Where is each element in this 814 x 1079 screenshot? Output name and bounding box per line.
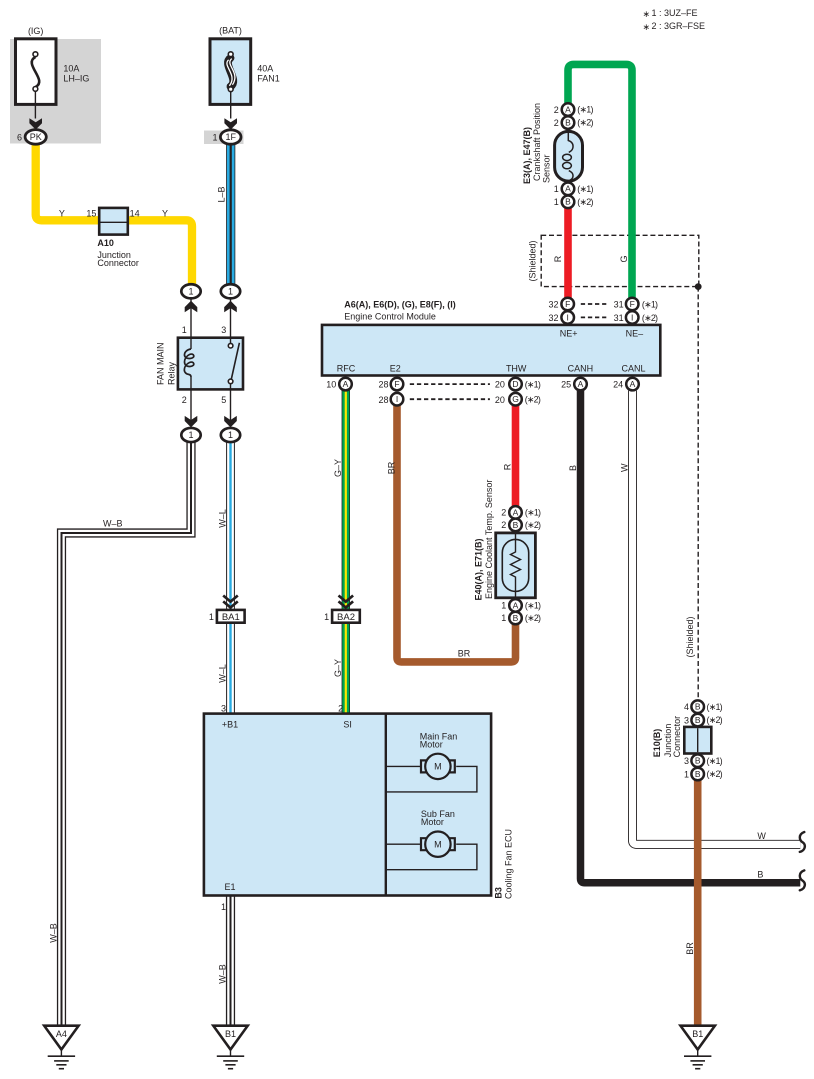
svg-text:F: F (565, 299, 570, 309)
svg-text:B: B (695, 702, 701, 712)
svg-text:(∗2): (∗2) (577, 118, 593, 128)
svg-text:W–L: W–L (217, 664, 227, 683)
svg-text:LH–IG: LH–IG (63, 73, 89, 83)
svg-text:1: 1 (212, 132, 217, 142)
svg-text:(∗2): (∗2) (525, 613, 541, 623)
svg-text:E3(A), E47(B): E3(A), E47(B) (522, 127, 532, 184)
svg-text:I: I (631, 312, 633, 322)
svg-text:W: W (757, 831, 766, 841)
svg-text:Motor: Motor (421, 817, 444, 827)
svg-text:(∗1): (∗1) (577, 184, 593, 194)
svg-text:B: B (565, 118, 571, 128)
svg-text:W: W (620, 463, 630, 472)
svg-text:G: G (619, 255, 629, 262)
svg-text:E40(A), E71(B): E40(A), E71(B) (474, 538, 484, 600)
svg-text:B1: B1 (692, 1029, 703, 1039)
svg-text:W–B: W–B (49, 923, 59, 943)
svg-text:FAN1: FAN1 (257, 73, 280, 83)
svg-text:B1: B1 (225, 1029, 236, 1039)
svg-text:Y: Y (162, 209, 168, 219)
svg-text:31: 31 (614, 313, 624, 323)
svg-text:5: 5 (221, 395, 226, 405)
svg-text:BR: BR (685, 942, 695, 955)
svg-text:B: B (695, 769, 701, 779)
svg-text:A: A (513, 600, 519, 610)
svg-text:Motor: Motor (420, 739, 443, 749)
svg-text:A6(A), E6(D), (G), E8(F), (I): A6(A), E6(D), (G), E8(F), (I) (344, 300, 456, 310)
svg-text:1: 1 (209, 612, 214, 622)
svg-text:L–B: L–B (217, 186, 227, 202)
svg-text:BA2: BA2 (337, 612, 355, 623)
svg-text:∗: ∗ (643, 22, 651, 32)
svg-text:A: A (343, 379, 349, 389)
svg-text:10: 10 (326, 380, 336, 390)
svg-text:2 : 3GR–FSE: 2 : 3GR–FSE (652, 21, 706, 31)
svg-text:(∗2): (∗2) (707, 769, 723, 779)
svg-text:20: 20 (495, 395, 505, 405)
svg-text:Sensor: Sensor (541, 154, 551, 183)
svg-text:(Shielded): (Shielded) (528, 240, 538, 281)
svg-text:A: A (630, 379, 636, 389)
svg-text:15: 15 (86, 208, 96, 218)
svg-text:(∗2): (∗2) (577, 197, 593, 207)
svg-text:1: 1 (188, 430, 193, 440)
svg-text:32: 32 (548, 313, 558, 323)
svg-text:R: R (553, 255, 563, 262)
svg-text:E2: E2 (390, 364, 401, 374)
svg-text:RFC: RFC (337, 364, 356, 374)
svg-text:SI: SI (343, 720, 352, 730)
svg-text:BR: BR (387, 461, 397, 474)
svg-text:THW: THW (506, 364, 527, 374)
svg-text:A: A (513, 507, 519, 517)
svg-text:BR: BR (458, 648, 471, 658)
svg-text:1: 1 (554, 197, 559, 207)
svg-text:1 : 3UZ–FE: 1 : 3UZ–FE (652, 8, 698, 18)
svg-text:B: B (568, 465, 578, 471)
svg-text:32: 32 (548, 300, 558, 310)
svg-text:(∗2): (∗2) (525, 395, 541, 405)
svg-text:F: F (630, 299, 635, 309)
svg-text:BA1: BA1 (222, 612, 240, 623)
svg-text:Crankshaft Position: Crankshaft Position (532, 103, 542, 181)
svg-text:W–L: W–L (217, 509, 227, 528)
svg-text:Cooling Fan ECU: Cooling Fan ECU (504, 829, 514, 899)
svg-text:(∗1): (∗1) (707, 702, 723, 712)
svg-text:31: 31 (614, 300, 624, 310)
svg-text:+B1: +B1 (222, 720, 238, 730)
svg-text:(∗2): (∗2) (525, 520, 541, 530)
svg-text:W–B: W–B (103, 519, 123, 529)
svg-text:Connector: Connector (672, 716, 682, 758)
svg-text:25: 25 (561, 380, 571, 390)
svg-text:6: 6 (17, 132, 22, 142)
svg-text:10A: 10A (63, 64, 79, 74)
svg-text:14: 14 (130, 208, 140, 218)
svg-text:∗: ∗ (643, 9, 651, 19)
svg-text:Y: Y (59, 209, 65, 219)
svg-text:(∗1): (∗1) (707, 756, 723, 766)
svg-text:NE+: NE+ (560, 329, 578, 339)
svg-text:2: 2 (501, 520, 506, 530)
svg-text:24: 24 (613, 380, 623, 390)
svg-text:40A: 40A (257, 64, 273, 74)
svg-text:R: R (503, 463, 513, 470)
svg-text:2: 2 (554, 118, 559, 128)
svg-text:B3: B3 (493, 887, 503, 899)
svg-text:(∗2): (∗2) (707, 715, 723, 725)
svg-text:I: I (567, 312, 569, 322)
svg-text:G: G (512, 394, 519, 404)
svg-text:3: 3 (221, 703, 226, 713)
svg-text:Engine Coolant Temp. Sensor: Engine Coolant Temp. Sensor (484, 480, 494, 599)
svg-text:B: B (695, 715, 701, 725)
svg-text:(∗1): (∗1) (577, 105, 593, 115)
svg-text:(∗1): (∗1) (642, 299, 658, 309)
svg-text:CANH: CANH (568, 364, 594, 374)
svg-text:3: 3 (684, 756, 689, 766)
svg-text:M: M (434, 762, 442, 772)
svg-text:Relay: Relay (167, 361, 177, 385)
svg-text:E10(B): E10(B) (652, 729, 662, 758)
svg-text:I: I (396, 394, 398, 404)
svg-text:1: 1 (228, 287, 233, 297)
svg-text:B: B (757, 869, 763, 879)
svg-text:A4: A4 (56, 1029, 67, 1039)
svg-text:3: 3 (684, 715, 689, 725)
svg-text:(∗1): (∗1) (525, 380, 541, 390)
svg-text:(Shielded): (Shielded) (685, 616, 695, 657)
svg-text:3: 3 (221, 325, 226, 335)
svg-text:B: B (565, 197, 571, 207)
svg-text:2: 2 (501, 508, 506, 518)
svg-text:(BAT): (BAT) (219, 26, 242, 36)
svg-text:W–B: W–B (218, 964, 228, 984)
svg-text:1: 1 (684, 769, 689, 779)
svg-text:A: A (565, 105, 571, 115)
svg-text:G–Y: G–Y (333, 459, 343, 477)
svg-text:1: 1 (501, 613, 506, 623)
svg-text:E1: E1 (225, 882, 236, 892)
svg-text:Connector: Connector (97, 258, 139, 268)
svg-text:PK: PK (30, 132, 42, 142)
svg-text:A: A (565, 184, 571, 194)
svg-text:(∗1): (∗1) (525, 600, 541, 610)
svg-text:2: 2 (182, 395, 187, 405)
svg-text:(IG): (IG) (28, 26, 44, 36)
svg-text:(∗2): (∗2) (642, 313, 658, 323)
svg-text:(∗1): (∗1) (525, 507, 541, 517)
svg-text:NE–: NE– (626, 329, 644, 339)
svg-text:20: 20 (495, 380, 505, 390)
svg-text:1: 1 (188, 287, 193, 297)
svg-text:1: 1 (324, 612, 329, 622)
svg-text:D: D (512, 379, 518, 389)
svg-text:B: B (695, 756, 701, 766)
svg-text:4: 4 (684, 702, 689, 712)
svg-text:A: A (578, 379, 584, 389)
svg-text:B: B (513, 613, 519, 623)
svg-text:1: 1 (501, 601, 506, 611)
svg-text:F: F (394, 379, 399, 389)
svg-text:G–Y: G–Y (333, 659, 343, 677)
svg-text:1: 1 (554, 184, 559, 194)
svg-text:FAN MAIN: FAN MAIN (155, 342, 165, 385)
svg-text:1F: 1F (225, 132, 236, 142)
svg-text:2: 2 (338, 703, 343, 713)
svg-text:28: 28 (378, 380, 388, 390)
svg-text:28: 28 (378, 395, 388, 405)
svg-text:CANL: CANL (621, 364, 645, 374)
svg-text:Engine Control Module: Engine Control Module (344, 311, 436, 321)
svg-text:B: B (513, 520, 519, 530)
svg-text:A10: A10 (97, 238, 114, 248)
svg-text:1: 1 (228, 430, 233, 440)
svg-text:2: 2 (554, 105, 559, 115)
svg-text:1: 1 (182, 325, 187, 335)
svg-text:M: M (434, 840, 442, 850)
svg-text:1: 1 (221, 902, 226, 912)
